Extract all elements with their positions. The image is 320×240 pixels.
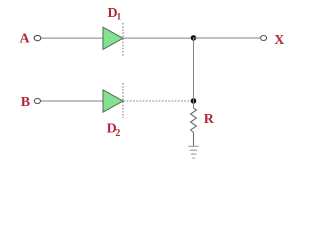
svg-text:2: 2 xyxy=(115,128,120,139)
svg-text:1: 1 xyxy=(117,13,122,23)
wire top node to bottom node xyxy=(193,38,195,101)
junction node (bottom) xyxy=(191,98,197,104)
resistor R xyxy=(191,108,197,133)
diode D1 cathode bar xyxy=(122,23,124,56)
ground xyxy=(188,146,198,158)
diode D2 label xyxy=(107,121,121,138)
wire B to D2 anode xyxy=(41,100,103,102)
svg-text:R: R xyxy=(204,112,215,127)
svg-text:A: A xyxy=(20,32,31,47)
terminal B xyxy=(34,98,40,103)
wire node to X xyxy=(194,37,261,39)
diode D2 xyxy=(103,90,123,112)
svg-text:X: X xyxy=(274,33,284,48)
wire A to D1 anode xyxy=(41,37,103,39)
diode D1 label xyxy=(108,6,122,23)
wire resistor to ground xyxy=(193,133,195,147)
wire D1 cathode to node xyxy=(124,37,194,39)
terminal X xyxy=(261,36,267,41)
junction node (top) xyxy=(191,35,197,41)
svg-text:B: B xyxy=(21,95,30,110)
wire D2 cathode to node xyxy=(124,100,194,102)
diode D2 cathode bar xyxy=(122,83,124,118)
terminal A xyxy=(34,35,41,40)
wire node to resistor xyxy=(193,101,195,108)
diode D1 xyxy=(103,27,123,49)
